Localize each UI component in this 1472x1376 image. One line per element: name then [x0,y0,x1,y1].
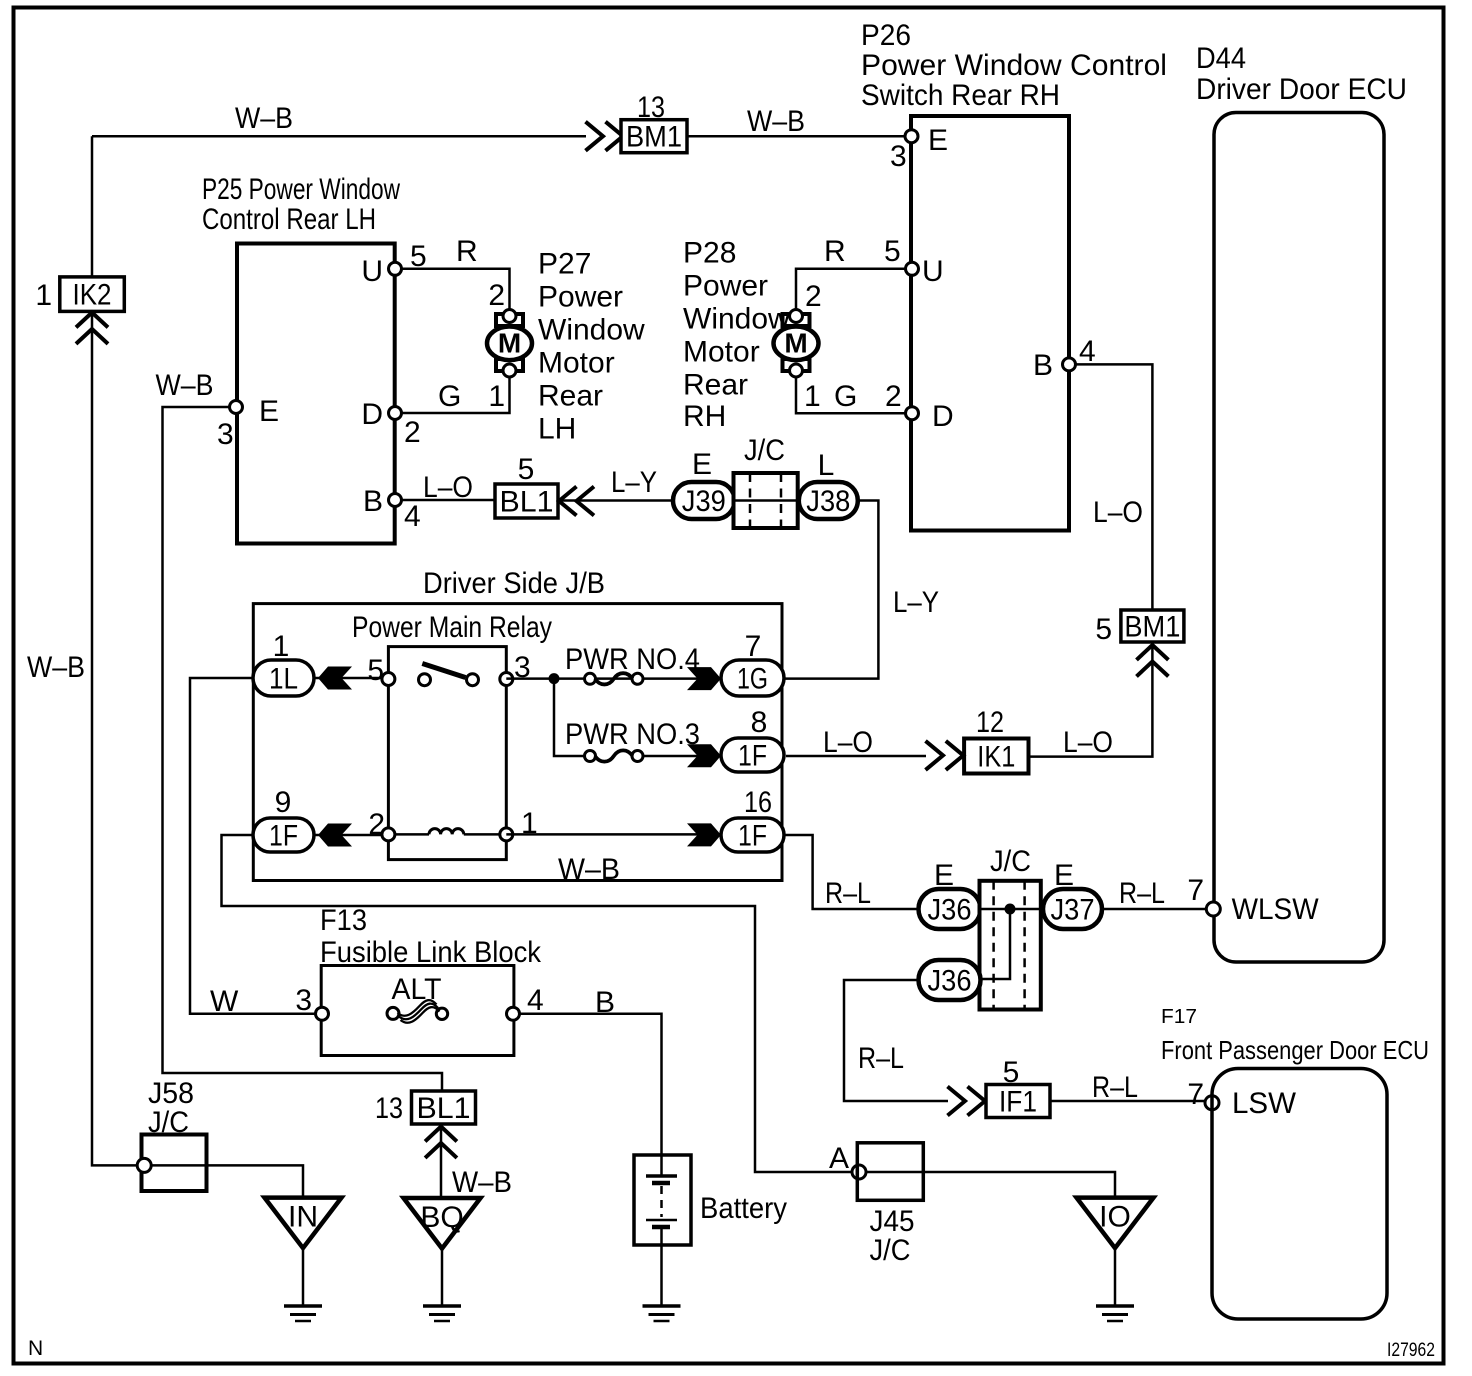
svg-text:W–B: W–B [27,651,85,684]
svg-text:3: 3 [217,418,234,451]
junction block label J58 J/C [148,1077,194,1139]
net label R-L (to J36) [825,877,871,910]
svg-text:1F: 1F [269,820,298,853]
junction block label J45 J/C [870,1205,915,1267]
pin 1 label (1L) [273,630,290,663]
wire fuse NO.3 to 1F(8) [643,755,722,758]
relay coil [394,829,501,835]
svg-text:D44: D44 [1196,42,1246,75]
pin 9 label (1F 9) [275,786,292,819]
pin 5 label (P25 U) [410,240,427,273]
svg-text:D: D [932,400,954,433]
pin label U (P25) [361,255,383,288]
svg-text:Switch Rear RH: Switch Rear RH [861,79,1060,112]
pin label D (P26) [932,400,954,433]
pin label U (P26) [922,255,944,288]
svg-text:Motor: Motor [683,336,760,369]
svg-text:R–L: R–L [1092,1071,1138,1104]
svg-text:PWR NO.3: PWR NO.3 [565,718,700,751]
svg-text:IK2: IK2 [73,279,112,312]
wire relay pin 3 to 1G [506,677,722,680]
net label W-B (P25 E wire) [156,369,214,402]
page connector chevrons below BL1 [425,1127,457,1158]
svg-text:Rear: Rear [538,380,603,413]
svg-text:BL1: BL1 [417,1092,471,1125]
svg-text:Driver Door ECU: Driver Door ECU [1196,73,1407,106]
svg-text:J38: J38 [806,485,850,518]
svg-text:1F: 1F [738,820,767,853]
junction block J58 J/C box [142,1135,207,1192]
wire W-B (P25 E to BL1 13) [163,407,443,1091]
wire R-L (1F 16 to J36) [784,835,919,909]
svg-text:B: B [595,986,615,1019]
junction dot inside J/C [1005,904,1016,915]
net label R-L (to LSW) [1092,1071,1138,1104]
pin 1 label (IK2) [35,279,52,312]
battery plates [646,1155,677,1245]
svg-text:E: E [259,395,279,428]
pin 2 label (P25 D) [404,416,421,449]
wire R (motor P28 to P26 U) [796,269,906,310]
svg-text:R: R [456,235,478,268]
pin 4 label (P25 B) [404,500,421,533]
pin U (P26) [906,262,919,275]
pin A label (J45) [829,1142,849,1175]
svg-text:R–L: R–L [1119,877,1165,910]
svg-text:W–B: W–B [235,102,293,135]
pin 16 label (1F 16) [744,786,772,819]
fuse label PWR NO.4 [565,643,700,676]
svg-text:N: N [28,1337,43,1360]
component label Battery [700,1192,787,1225]
net label L-O (right of IK1) [1063,726,1113,759]
svg-text:5: 5 [1095,613,1112,646]
connector P25 label [202,173,400,236]
svg-text:IN: IN [288,1201,318,1234]
pin 1 label (relay) [521,807,538,840]
svg-text:2: 2 [885,380,902,413]
junction block label Driver Side J/B [423,567,605,600]
svg-text:4: 4 [1079,335,1096,368]
svg-text:G: G [438,380,461,413]
net label W-B (inside J/B) [558,853,620,886]
pin E (P26) [905,130,918,143]
pin 1 label (P27) [488,380,505,413]
junction connector oval J39 [673,482,735,519]
wire W-B top rail to BM1 [92,135,586,138]
pin 4 label (P26 B) [1079,335,1096,368]
svg-text:P27: P27 [538,248,591,281]
wire B (fusible link to battery) [520,1014,662,1155]
svg-text:U: U [922,255,944,288]
ground connector triangle BQ [404,1198,481,1249]
svg-text:D: D [361,398,383,431]
svg-text:A: A [829,1142,849,1175]
wire R (P25 U to motor P27) [402,269,510,310]
svg-text:LH: LH [538,413,576,446]
pin B (P25) [389,494,402,507]
page connector chevrons below BM1 [1137,645,1169,676]
relay pin 3 [500,673,513,686]
in-line connector BM1 (5) [1121,610,1184,644]
pin 12 label (IK1) [976,706,1004,739]
wire R-L (IF1 to LSW pin 7) [1050,1100,1206,1103]
svg-text:W–B: W–B [452,1166,512,1199]
wire W-B (IK2 down to J58 J/C) [92,312,138,1166]
svg-text:16: 16 [744,786,772,819]
junction block label J/C (J36 J37) [990,845,1031,878]
wire IO to ground [1114,1248,1117,1306]
in-line connector IK2 [60,277,125,312]
svg-text:2: 2 [368,808,385,841]
solid arrowhead toward 1F(16) [687,823,721,846]
pin 3 label (relay) [514,651,531,684]
svg-text:J37: J37 [1051,894,1095,927]
solid arrowhead toward 1F(8) [687,744,721,767]
svg-text:IK1: IK1 [977,741,1015,774]
pin 7 label (1G) [745,630,762,663]
net label R (P28) [824,235,846,268]
in-line connector BL1 (13) [412,1091,476,1125]
connector oval 1F (8) [721,738,784,773]
ground connector triangle IO [1077,1198,1154,1249]
pin U (P25) [389,262,402,275]
svg-text:IO: IO [1099,1201,1131,1234]
svg-text:M: M [498,328,521,359]
wire G (motor P28 to P26 D) [796,376,906,413]
svg-text:J39: J39 [682,485,726,518]
svg-text:B: B [1033,349,1053,382]
pin 4 label (fusible link) [527,984,544,1017]
svg-text:5: 5 [884,235,901,268]
svg-text:2: 2 [805,280,822,313]
net label L-O (P25 B) [423,471,473,504]
pin label B (P26) [1033,349,1053,382]
pin 5 label (P26 U) [884,235,901,268]
pin 5 label (IF1) [1003,1056,1020,1089]
svg-text:1: 1 [488,380,505,413]
svg-text:1L: 1L [269,663,298,696]
svg-text:1F: 1F [738,740,767,773]
svg-text:R–L: R–L [825,877,871,910]
pin 5 label (BL1) [518,453,535,486]
svg-text:J/C: J/C [744,434,785,467]
relay pin 1 [500,828,513,841]
svg-text:5: 5 [518,453,535,486]
svg-text:Power: Power [538,281,623,314]
wire 1F(9) to relay pin 2 [314,834,388,837]
svg-text:P26: P26 [861,19,911,52]
svg-text:4: 4 [404,500,421,533]
connector oval 1F (9) [253,818,314,853]
svg-text:7: 7 [1187,1078,1204,1111]
junction connector oval J38 [799,482,858,519]
fuse PWR NO.4 [585,673,644,684]
pin 7 label (WLSW) [1187,874,1204,907]
svg-text:5: 5 [367,654,384,687]
pin 3 label (fusible link) [295,984,312,1017]
svg-text:LSW: LSW [1232,1087,1297,1120]
svg-text:1G: 1G [737,663,768,696]
pin E label (J37) [1054,859,1074,892]
connector oval 1L [253,660,314,696]
wire L-O (BM1 down to IK1) [1030,642,1152,757]
net label B (battery wire) [595,986,615,1019]
pin 2 label (P28) [805,280,822,313]
connector P26 box [911,116,1069,531]
svg-text:WLSW: WLSW [1232,893,1320,926]
svg-text:1: 1 [804,380,821,413]
svg-text:1: 1 [35,279,52,312]
wire R-L (J37 to WLSW pin 7) [1102,908,1207,911]
battery box [634,1155,691,1245]
pin L label (J38) [818,449,835,482]
relay switch contacts [419,664,479,686]
svg-text:7: 7 [745,630,762,663]
net label L-Y (to J39) [611,466,657,499]
fuse label PWR NO.3 [565,718,700,751]
junction block J/C (J36 J37) box [980,881,1041,1010]
svg-text:J/C: J/C [990,845,1031,878]
motor P27 [487,310,532,378]
pin 5 label (relay) [367,654,384,687]
pin label D (P25) [361,398,383,431]
wire J58 to IN triangle [207,1165,304,1197]
net label W-B (top rail) [235,102,293,135]
connector P26 label [861,19,1167,112]
relay pin 2 [382,828,395,841]
svg-text:8: 8 [751,706,768,739]
svg-text:W–B: W–B [747,105,805,138]
ECU F17 box [1212,1069,1387,1320]
wire L-Y (chevrons to J39) [559,499,674,502]
junction block Driver Side J/B box [253,604,782,881]
connector oval 1F (16) [721,818,784,853]
svg-text:PWR NO.4: PWR NO.4 [565,643,700,676]
pin 8 label (1F 8) [751,706,768,739]
net label W-B (BL1 to BQ) [452,1166,512,1199]
svg-text:Motor: Motor [538,347,615,380]
pin label E (P26) [928,124,948,157]
net label L-O (vertical) [1093,496,1143,529]
svg-text:2: 2 [404,416,421,449]
relay label Power Main Relay [352,611,552,644]
motor P28 [774,310,819,378]
ground (IN) [284,1306,322,1321]
pin label B (P25) [363,485,383,518]
ECU F17 label [1161,1006,1429,1065]
net label G (P27) [438,380,461,413]
svg-text:J36: J36 [928,894,972,927]
svg-text:3: 3 [295,984,312,1017]
ground (BQ) [423,1306,461,1321]
solid arrowhead toward 1L [318,667,352,690]
pin 7 LSW [1205,1096,1219,1110]
svg-text:Rear: Rear [683,369,748,402]
in-line connector IK1 [964,739,1028,774]
svg-text:R–L: R–L [858,1042,904,1075]
connector P25 box [237,244,395,544]
junction block J45 J/C box [857,1143,923,1201]
wire 1L to relay pin 5 [314,677,388,680]
wire R-L (lower J36 to IF1) [844,980,948,1101]
svg-text:P25 Power Window: P25 Power Window [202,173,400,206]
ECU D44 box [1214,113,1384,963]
svg-text:Power Main Relay: Power Main Relay [352,611,552,644]
net label W-B (left vertical) [27,651,85,684]
pin 2 label (P26 D) [885,380,902,413]
svg-text:4: 4 [527,984,544,1017]
pin E (P25) [230,401,243,414]
svg-text:L–O: L–O [423,471,473,504]
in-line connector IF1 [986,1085,1050,1119]
solid arrowhead toward 1F(9) [318,824,352,847]
pin label E (P25) [259,395,279,428]
fusible link block F13 box [321,966,514,1056]
fuse ALT label [392,973,442,1006]
net label L-Y (vertical) [893,586,939,619]
page connector chevrons below IK2 [76,313,108,344]
svg-text:13: 13 [637,91,665,124]
wire W-B (BM1 to P26 pin E) [687,135,905,138]
pin A (J45) [852,1165,866,1179]
pin 1 label (P28) [804,380,821,413]
arrow chevrons into IK1 [926,741,964,770]
svg-text:7: 7 [1187,874,1204,907]
wire J45 to IO triangle [923,1172,1115,1198]
ground (battery) [643,1306,681,1321]
svg-text:Control Rear LH: Control Rear LH [202,203,376,236]
wire BQ to ground [441,1249,444,1307]
svg-text:L–Y: L–Y [611,466,657,499]
wire L-Y (J38 to 1G) [784,501,878,679]
svg-text:BL1: BL1 [500,486,554,519]
pin 3 label (P25 E) [217,418,234,451]
svg-text:E: E [1054,859,1074,892]
connector oval 1G [721,660,784,696]
component label P28 Power Window Motor Rear RH [683,237,790,434]
wire W-B (1F 9 to J45 pin A) [222,835,853,1172]
svg-text:B: B [363,485,383,518]
wire IN to ground [302,1248,305,1306]
pin 2 label (P27) [488,279,505,312]
svg-text:U: U [361,255,383,288]
pin label LSW [1232,1087,1297,1120]
svg-text:13: 13 [375,1092,403,1125]
svg-text:RH: RH [683,400,726,433]
net label G (P28) [834,380,857,413]
wire battery to ground [660,1245,663,1306]
wire junction dot to lower J36 [980,909,1010,979]
junction block J/C (J38 J39) box [734,473,798,528]
arrow chevrons out of BL1 [559,487,594,516]
pin B (P26) [1063,358,1076,371]
svg-text:L–Y: L–Y [893,586,939,619]
svg-text:1: 1 [273,630,290,663]
arrow chevrons into BM1 [586,122,624,151]
in-line connector BM1 (top) [621,120,687,154]
svg-text:BQ: BQ [420,1201,463,1234]
arrow chevrons into IF1 [948,1087,986,1116]
wire G (motor P27 to P25 D) [402,376,510,413]
svg-text:IF1: IF1 [999,1086,1037,1119]
wire L-O (1F 8 to IK1) [786,755,926,758]
net label R-L (to WLSW) [1119,877,1165,910]
svg-text:Battery: Battery [700,1192,787,1225]
pin E label (J36) [934,859,954,892]
svg-text:5: 5 [1003,1056,1020,1089]
pin 13 label (BL1 13) [375,1092,403,1125]
pin 3 (fusible link) [316,1007,329,1020]
relay pin 5 [382,673,395,686]
pin D (P25) [389,407,402,420]
ground connector triangle IN [265,1198,342,1249]
svg-text:E: E [692,448,712,481]
pin 2 label (relay) [368,808,385,841]
svg-text:L: L [818,449,835,482]
fuse ALT [387,1000,448,1023]
pin 13 label (BM1 top) [637,91,665,124]
ECU D44 label [1196,42,1407,106]
svg-text:F13: F13 [320,904,367,937]
pin E label (J39) [692,448,712,481]
solid arrowhead toward 1G [687,667,721,690]
diagram note N [28,1337,43,1360]
pin 7 label (LSW) [1187,1078,1204,1111]
diagram id I27962 [1387,1340,1435,1361]
wire W (1L to fusible link pin 3) [190,678,316,1014]
net label R-L (to IF1) [858,1042,904,1075]
pin 5 label (BM1) [1095,613,1112,646]
svg-text:G: G [834,380,857,413]
junction connector oval J36 (E) [919,889,981,929]
pin 4 (fusible link) [507,1007,520,1020]
svg-text:Window: Window [538,314,645,347]
svg-text:12: 12 [976,706,1004,739]
pin label WLSW [1232,893,1320,926]
svg-text:J/C: J/C [870,1234,911,1267]
ground (IO) [1096,1306,1134,1321]
svg-text:E: E [934,859,954,892]
svg-text:I27962: I27962 [1387,1340,1435,1361]
svg-text:3: 3 [890,140,907,173]
svg-text:J36: J36 [928,965,972,998]
component label P27 Power Window Motor Rear LH [538,248,645,446]
svg-text:Front Passenger Door ECU: Front Passenger Door ECU [1161,1035,1429,1065]
svg-text:Driver Side J/B: Driver Side J/B [423,567,605,600]
junction dot PWR node [549,673,560,684]
wire PWR node down to fuse NO.3 [554,679,586,756]
wire L-O (P25 B to BL1) [402,499,496,502]
wire W-B (BL1 to BQ) [440,1124,443,1198]
net label W-B (BM1 to P26) [747,105,805,138]
svg-text:9: 9 [275,786,292,819]
net label R (P27) [456,235,478,268]
pin 3 label (P26 E) [890,140,907,173]
svg-text:W–B: W–B [156,369,214,402]
svg-text:E: E [928,124,948,157]
svg-text:2: 2 [488,279,505,312]
fusible link block label [320,904,542,969]
svg-text:L–O: L–O [823,726,873,759]
relay Power Main Relay box [388,647,506,860]
net label L-O (left of IK1) [823,726,873,759]
svg-text:R: R [824,235,846,268]
pin 7 WLSW [1206,902,1220,916]
pin D (P26) [906,407,919,420]
junction block label J/C (J38 J39) [744,434,785,467]
svg-text:L–O: L–O [1063,726,1113,759]
